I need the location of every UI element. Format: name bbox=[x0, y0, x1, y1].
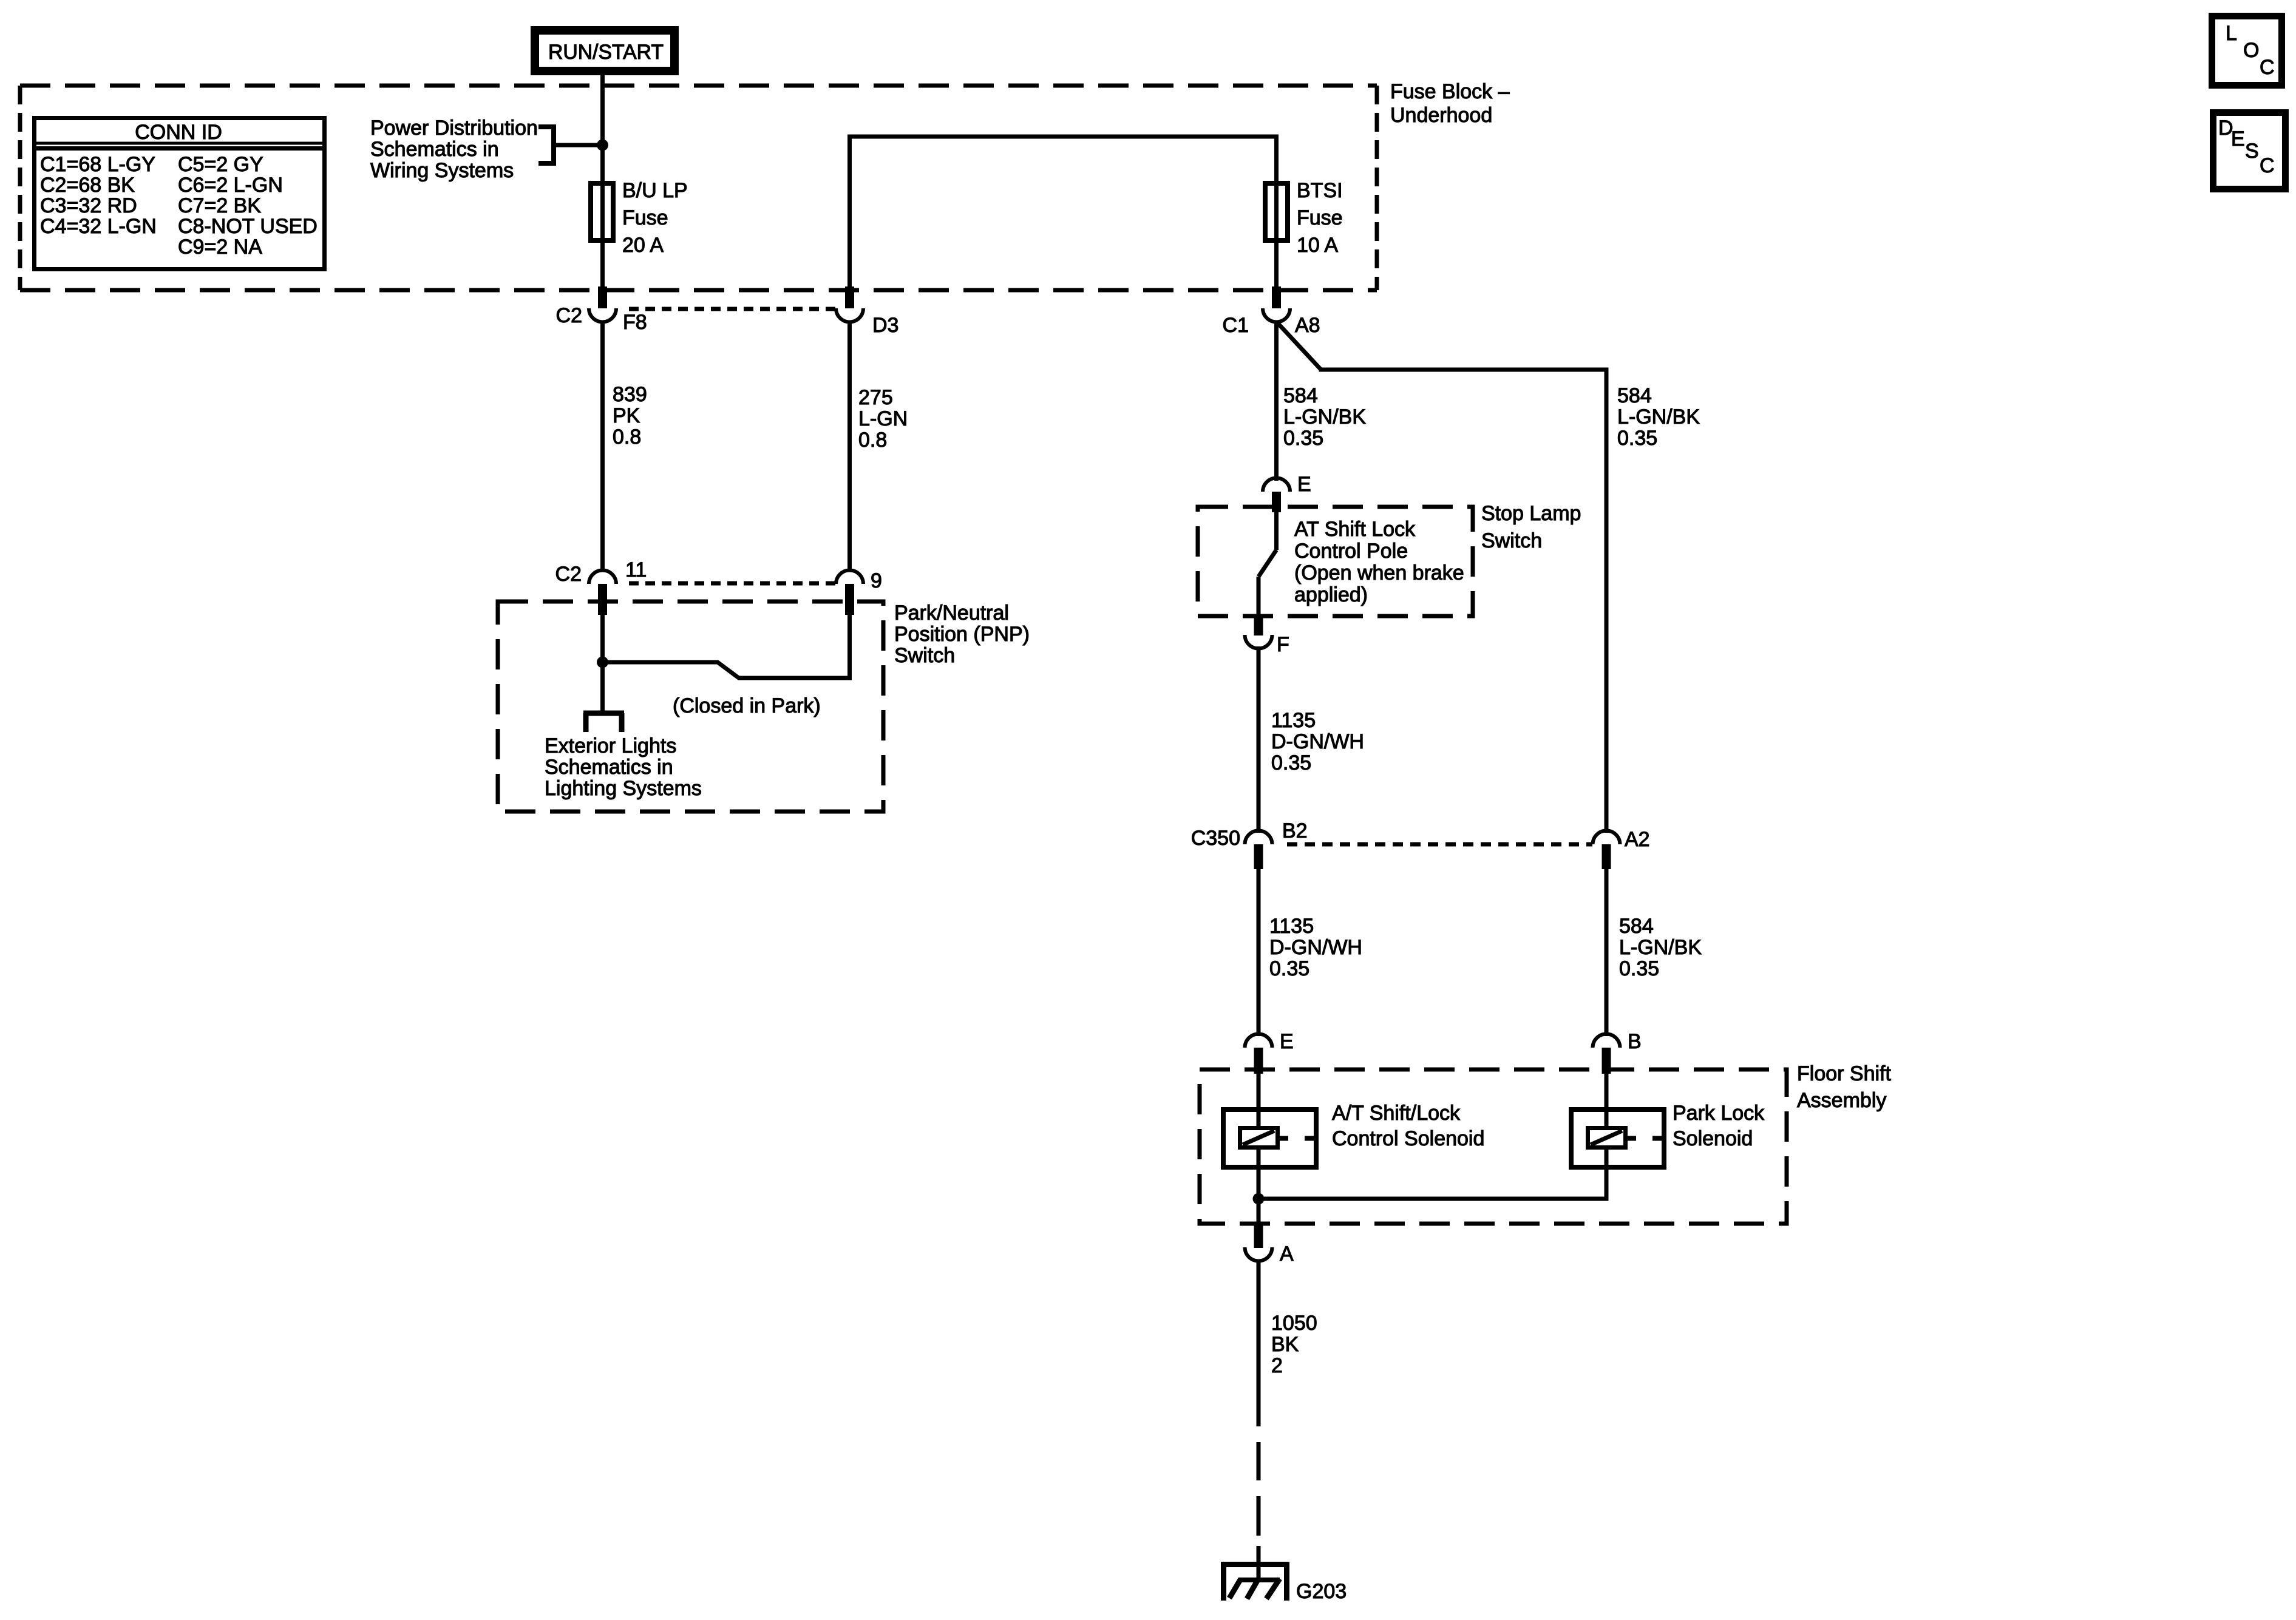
svg-text:F: F bbox=[1277, 633, 1289, 656]
svg-text:0.8: 0.8 bbox=[858, 429, 887, 452]
svg-text:C350: C350 bbox=[1191, 827, 1240, 850]
svg-text:A8: A8 bbox=[1295, 314, 1320, 337]
svg-text:B2: B2 bbox=[1282, 819, 1308, 842]
svg-text:A/T Shift/Lock: A/T Shift/Lock bbox=[1332, 1102, 1461, 1125]
svg-text:applied): applied) bbox=[1294, 583, 1368, 606]
svg-text:1050: 1050 bbox=[1271, 1312, 1317, 1335]
svg-text:C9=2 NA: C9=2 NA bbox=[178, 236, 262, 259]
svg-text:C7=2 BK: C7=2 BK bbox=[178, 194, 261, 217]
svg-text:L-GN/BK: L-GN/BK bbox=[1283, 405, 1366, 429]
svg-text:Schematics in: Schematics in bbox=[545, 756, 673, 779]
svg-text:0.35: 0.35 bbox=[1283, 427, 1323, 450]
svg-text:Position (PNP): Position (PNP) bbox=[894, 623, 1030, 646]
svg-text:PK: PK bbox=[613, 404, 640, 427]
svg-text:C8-NOT USED: C8-NOT USED bbox=[178, 215, 318, 238]
svg-text:Floor Shift: Floor Shift bbox=[1797, 1062, 1891, 1085]
svg-text:0.35: 0.35 bbox=[1271, 751, 1311, 774]
svg-text:Assembly: Assembly bbox=[1797, 1089, 1886, 1112]
svg-text:1135: 1135 bbox=[1271, 709, 1316, 732]
svg-text:E: E bbox=[1280, 1030, 1294, 1053]
svg-text:RUN/START: RUN/START bbox=[548, 41, 664, 64]
svg-text:0.35: 0.35 bbox=[1619, 957, 1659, 980]
svg-text:D-GN/WH: D-GN/WH bbox=[1269, 936, 1362, 959]
svg-text:B: B bbox=[1628, 1030, 1642, 1053]
svg-text:2: 2 bbox=[1271, 1354, 1283, 1377]
svg-text:Fuse Block –: Fuse Block – bbox=[1390, 80, 1510, 103]
svg-text:9: 9 bbox=[871, 569, 882, 592]
svg-text:D-GN/WH: D-GN/WH bbox=[1271, 730, 1364, 753]
svg-text:AT Shift Lock: AT Shift Lock bbox=[1294, 518, 1416, 541]
svg-text:Schematics in: Schematics in bbox=[370, 138, 499, 161]
svg-text:Park Lock: Park Lock bbox=[1673, 1102, 1765, 1125]
svg-text:C2=68 BK: C2=68 BK bbox=[40, 174, 135, 197]
svg-text:C4=32 L-GN: C4=32 L-GN bbox=[40, 215, 157, 238]
svg-text:CONN ID: CONN ID bbox=[135, 121, 222, 144]
svg-text:Control Solenoid: Control Solenoid bbox=[1332, 1127, 1484, 1150]
svg-text:L-GN/BK: L-GN/BK bbox=[1617, 405, 1700, 429]
svg-text:Exterior Lights: Exterior Lights bbox=[545, 734, 676, 757]
svg-text:(Open when brake: (Open when brake bbox=[1294, 561, 1464, 585]
svg-text:584: 584 bbox=[1619, 915, 1654, 938]
svg-text:Wiring Systems: Wiring Systems bbox=[370, 159, 514, 182]
svg-text:839: 839 bbox=[613, 383, 647, 406]
svg-text:Stop Lamp: Stop Lamp bbox=[1481, 502, 1581, 525]
svg-text:0.8: 0.8 bbox=[613, 425, 641, 449]
svg-text:O: O bbox=[2243, 39, 2259, 62]
svg-text:C2: C2 bbox=[556, 304, 582, 327]
svg-text:F8: F8 bbox=[623, 311, 647, 334]
svg-text:584: 584 bbox=[1617, 384, 1652, 407]
svg-text:C3=32 RD: C3=32 RD bbox=[40, 194, 137, 217]
svg-text:Fuse: Fuse bbox=[1297, 206, 1343, 229]
svg-text:L: L bbox=[2226, 22, 2237, 45]
svg-text:Solenoid: Solenoid bbox=[1673, 1127, 1753, 1150]
svg-text:584: 584 bbox=[1283, 384, 1318, 407]
svg-text:B/U LP: B/U LP bbox=[622, 179, 688, 202]
svg-text:BTSI: BTSI bbox=[1297, 179, 1343, 202]
svg-text:C2: C2 bbox=[555, 563, 582, 586]
svg-text:Power Distribution: Power Distribution bbox=[370, 117, 538, 140]
svg-text:Control Pole: Control Pole bbox=[1294, 540, 1408, 563]
svg-text:275: 275 bbox=[858, 386, 893, 409]
svg-text:Park/Neutral: Park/Neutral bbox=[894, 602, 1009, 625]
svg-text:D3: D3 bbox=[872, 314, 898, 337]
svg-text:C1=68 L-GY: C1=68 L-GY bbox=[40, 153, 155, 176]
svg-text:Switch: Switch bbox=[894, 644, 955, 667]
svg-text:(Closed in Park): (Closed in Park) bbox=[673, 694, 821, 717]
svg-text:E: E bbox=[2231, 127, 2245, 151]
svg-text:S: S bbox=[2245, 140, 2259, 163]
svg-text:Fuse: Fuse bbox=[622, 206, 668, 229]
svg-text:0.35: 0.35 bbox=[1269, 957, 1309, 980]
svg-text:C5=2 GY: C5=2 GY bbox=[178, 153, 263, 176]
svg-text:C: C bbox=[2260, 56, 2275, 79]
svg-text:L-GN/BK: L-GN/BK bbox=[1619, 936, 1702, 959]
svg-text:Lighting Systems: Lighting Systems bbox=[545, 777, 702, 800]
svg-text:10 A: 10 A bbox=[1297, 234, 1338, 257]
svg-text:BK: BK bbox=[1271, 1333, 1299, 1356]
svg-text:A2: A2 bbox=[1625, 828, 1650, 851]
svg-text:11: 11 bbox=[625, 558, 647, 581]
svg-text:Underhood: Underhood bbox=[1390, 104, 1492, 127]
svg-text:C6=2 L-GN: C6=2 L-GN bbox=[178, 174, 283, 197]
svg-text:1135: 1135 bbox=[1269, 915, 1314, 938]
svg-text:C: C bbox=[2260, 154, 2275, 177]
svg-text:Switch: Switch bbox=[1481, 529, 1542, 552]
svg-text:0.35: 0.35 bbox=[1617, 427, 1657, 450]
svg-text:E: E bbox=[1297, 473, 1311, 496]
svg-text:C1: C1 bbox=[1223, 314, 1249, 337]
svg-text:A: A bbox=[1280, 1242, 1294, 1266]
svg-text:L-GN: L-GN bbox=[858, 407, 908, 430]
svg-text:20 A: 20 A bbox=[622, 234, 664, 257]
svg-text:G203: G203 bbox=[1296, 1580, 1347, 1603]
